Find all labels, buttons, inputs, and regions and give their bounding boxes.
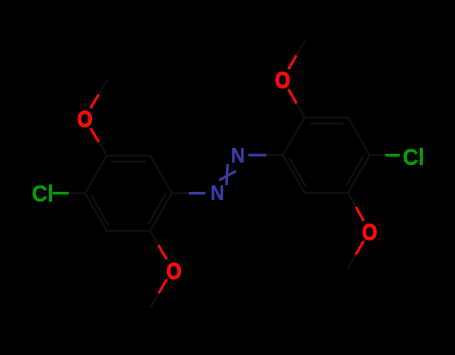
svg-text:N: N	[231, 145, 245, 168]
svg-text:O: O	[77, 105, 92, 132]
svg-text:Cl: Cl	[32, 180, 54, 206]
svg-text:N: N	[210, 182, 224, 205]
svg-text:O: O	[362, 218, 377, 245]
svg-text:O: O	[275, 66, 290, 93]
svg-text:Cl: Cl	[403, 144, 425, 170]
svg-text:O: O	[166, 257, 181, 284]
